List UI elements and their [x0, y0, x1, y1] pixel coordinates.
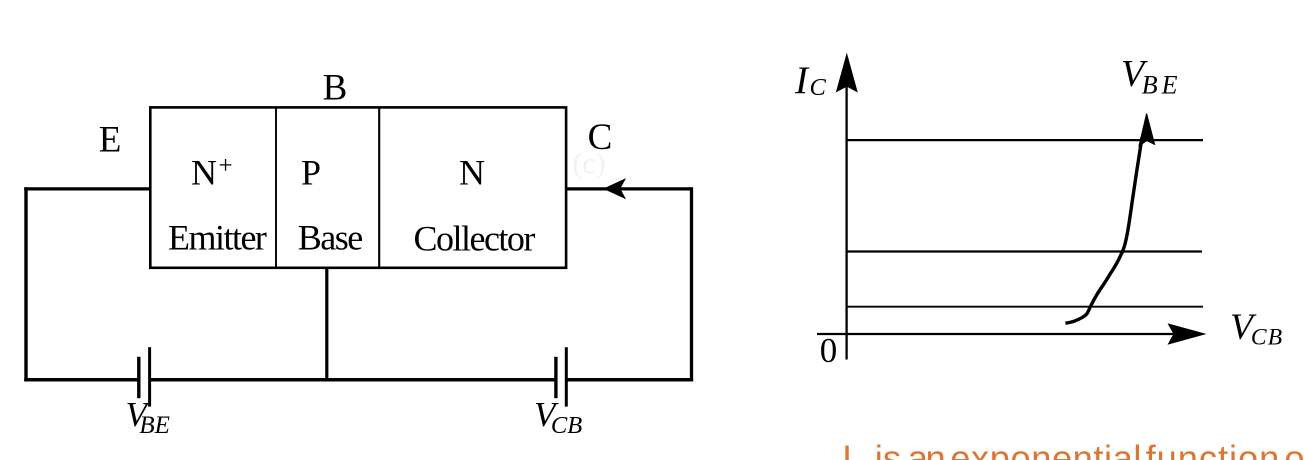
wire right vertical	[690, 187, 693, 381]
svg-text:I: I	[842, 438, 852, 460]
battery VBE long plate	[148, 347, 151, 406]
wire bottom middle	[150, 378, 556, 382]
svg-text:Emitter: Emitter	[168, 218, 267, 258]
IC level line 2	[847, 250, 1202, 252]
svg-text:VCB: VCB	[1230, 307, 1283, 350]
svg-text:VCB: VCB	[534, 395, 582, 439]
base-collector junction divider	[378, 108, 380, 268]
curve arrowhead	[1139, 114, 1155, 146]
transistor body outline	[150, 107, 566, 267]
svg-text:exponential: exponential	[950, 438, 1142, 460]
svg-text:function: function	[1146, 438, 1281, 460]
graph x-axis	[817, 333, 1174, 335]
svg-text:E: E	[99, 119, 122, 160]
wire C lead	[566, 187, 692, 190]
caption: IC is an exponential function of	[842, 438, 1304, 460]
VBE sweep curve	[1065, 138, 1142, 324]
wire left vertical	[24, 187, 27, 381]
svg-text:B: B	[323, 68, 348, 109]
wire E lead	[24, 187, 151, 190]
y-axis arrowhead	[837, 55, 857, 92]
wire bottom right	[566, 378, 693, 382]
svg-text:0: 0	[820, 331, 838, 370]
svg-text:IC: IC	[794, 59, 827, 102]
battery VBE short plate	[137, 357, 140, 398]
IC level line 1	[847, 139, 1203, 141]
svg-text:(c): (c)	[572, 147, 605, 180]
svg-text:VBE: VBE	[126, 395, 170, 439]
emitter-base junction divider	[275, 108, 277, 268]
IC level line 3	[847, 306, 1203, 308]
svg-text:an: an	[908, 438, 944, 460]
battery VCB short plate	[554, 357, 557, 398]
svg-text:is: is	[875, 438, 901, 460]
svg-text:Base: Base	[298, 218, 363, 258]
arrowhead into collector	[604, 179, 625, 198]
wire bottom left	[24, 378, 139, 382]
svg-text:P: P	[301, 153, 321, 193]
svg-text:of: of	[1284, 438, 1304, 460]
battery VCB long plate	[565, 347, 568, 406]
svg-text:Collector: Collector	[413, 219, 535, 259]
svg-text:VBE: VBE	[1121, 53, 1181, 100]
base lead down	[325, 267, 328, 380]
x-axis arrowhead	[1169, 324, 1205, 344]
svg-text:N: N	[459, 153, 485, 193]
graph y-axis	[845, 86, 847, 360]
svg-text:N+: N+	[191, 153, 233, 193]
